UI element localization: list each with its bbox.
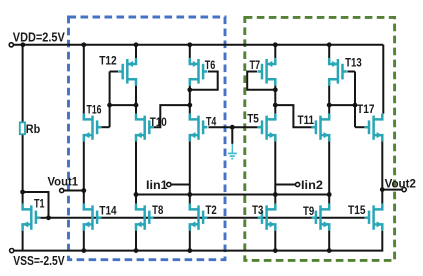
svg-text:Iin2: Iin2: [301, 178, 323, 192]
svg-text:T9: T9: [303, 205, 315, 218]
svg-text:VSS=-2.5V: VSS=-2.5V: [13, 254, 65, 268]
svg-text:T2: T2: [206, 204, 218, 217]
svg-text:T12: T12: [99, 55, 117, 68]
svg-text:T10: T10: [150, 116, 167, 129]
svg-text:T11: T11: [298, 114, 315, 127]
svg-text:T5: T5: [247, 112, 259, 125]
svg-text:VDD=2.5V: VDD=2.5V: [13, 30, 66, 44]
svg-text:T16: T16: [87, 104, 102, 117]
svg-text:T15: T15: [348, 204, 366, 217]
svg-text:Rb: Rb: [26, 122, 40, 136]
svg-text:Vout2: Vout2: [385, 176, 416, 190]
svg-text:T17: T17: [357, 103, 375, 116]
svg-text:T4: T4: [206, 115, 217, 128]
svg-text:T3: T3: [252, 204, 264, 217]
svg-text:T13: T13: [345, 56, 362, 69]
svg-text:T1: T1: [34, 198, 45, 211]
svg-text:Vout1: Vout1: [48, 174, 79, 188]
svg-text:T6: T6: [205, 59, 216, 72]
svg-text:T7: T7: [250, 59, 261, 72]
svg-text:T8: T8: [152, 204, 164, 217]
svg-text:T14: T14: [99, 204, 117, 217]
svg-text:Iin1: Iin1: [146, 178, 168, 192]
